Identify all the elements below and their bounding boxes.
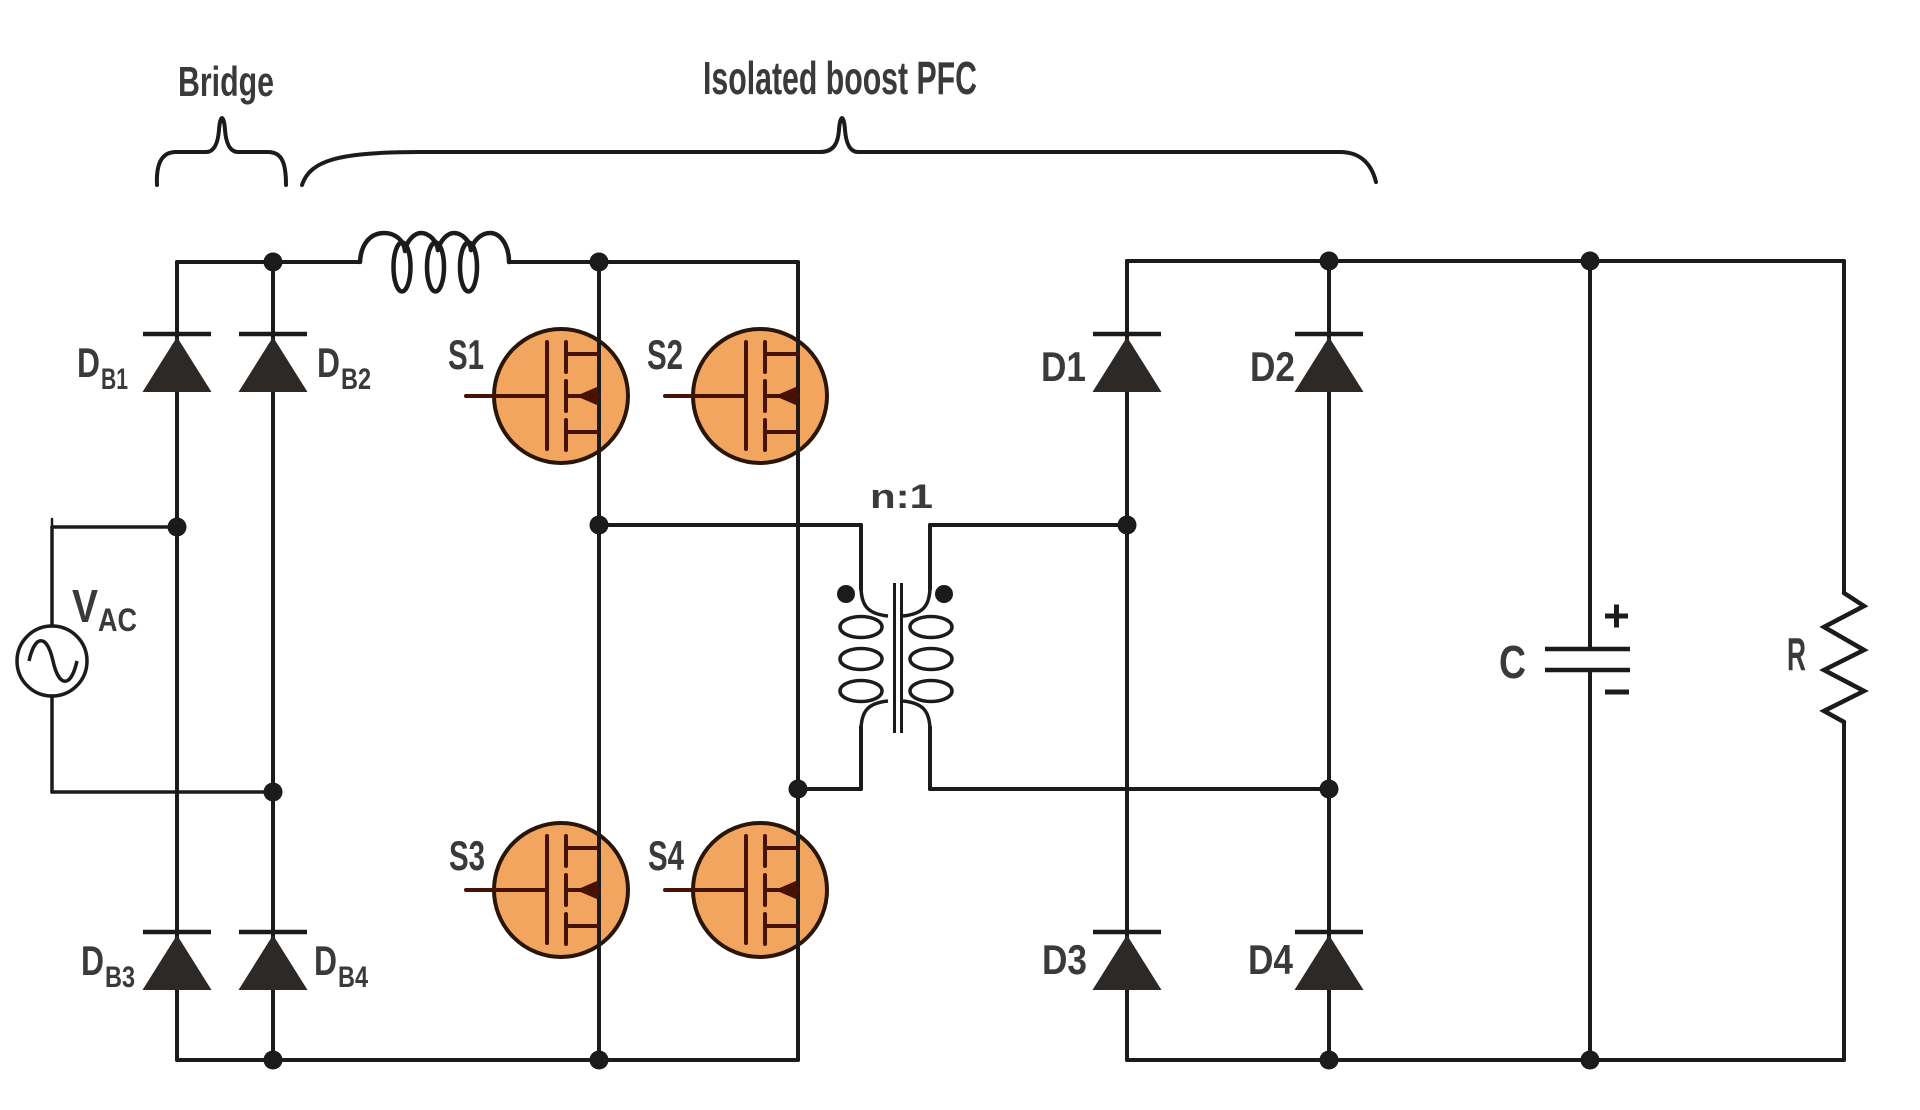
svg-text:S3: S3 [449,832,485,879]
svg-text:R: R [1787,628,1806,680]
svg-text:C: C [1499,636,1526,688]
svg-text:AC: AC [98,602,137,638]
svg-text:B3: B3 [105,961,135,994]
svg-text:D3: D3 [1042,936,1087,983]
svg-text:n:1: n:1 [870,478,933,516]
svg-text:D2: D2 [1250,343,1295,390]
svg-text:B4: B4 [338,961,368,994]
svg-text:S1: S1 [448,331,484,378]
svg-text:D: D [317,339,340,386]
svg-text:V: V [72,580,98,632]
svg-text:B1: B1 [101,363,128,396]
svg-text:S2: S2 [647,331,683,378]
svg-text:D: D [314,937,337,984]
svg-text:Bridge: Bridge [178,58,274,105]
svg-text:D: D [81,937,104,984]
svg-text:S4: S4 [648,832,684,879]
svg-text:D1: D1 [1041,343,1086,390]
svg-text:D: D [77,339,100,386]
svg-text:B2: B2 [341,363,371,396]
svg-text:D4: D4 [1248,936,1294,983]
svg-text:Isolated boost PFC: Isolated boost PFC [703,52,977,104]
